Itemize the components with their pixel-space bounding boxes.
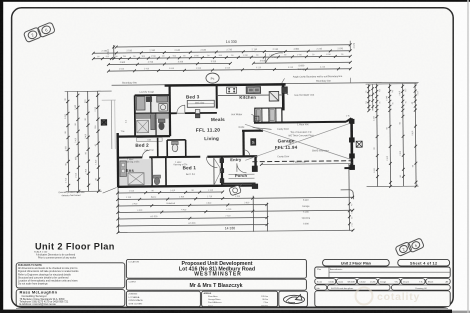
sliding door tag S <box>251 139 256 146</box>
right column: scale/date/drawn row <box>315 279 336 285</box>
left exterior wall <box>116 133 119 187</box>
garage top wall <box>254 121 346 124</box>
hot water unit <box>282 87 288 94</box>
bed2 robe strip <box>137 137 163 141</box>
tag 2 box <box>254 116 259 122</box>
verandah left <box>110 100 112 149</box>
amendment stamp pair near title block <box>395 242 412 257</box>
laundry block walls <box>134 95 136 135</box>
pantry block <box>255 108 282 123</box>
right column: sheet number pill <box>398 259 450 266</box>
entry tag diamond <box>239 184 244 188</box>
title block: logo box <box>279 291 308 306</box>
wall bed2 top <box>117 135 170 138</box>
title block: areas box <box>202 291 278 306</box>
sheet bottom shadow <box>16 308 448 310</box>
hood recess arc <box>265 53 283 63</box>
downpipe mark lower right <box>341 190 354 200</box>
garage right wall <box>350 118 353 168</box>
bed3 robe <box>187 100 214 107</box>
watermark <box>356 288 373 305</box>
right dimension lines <box>376 84 379 187</box>
right column: sheet name pill <box>323 259 390 266</box>
title block: location box <box>126 259 306 278</box>
bed3 / kitchen walls <box>216 85 218 108</box>
hall partitions <box>157 138 159 157</box>
house right wall (entry) <box>221 157 223 186</box>
north / datum oval <box>206 73 219 83</box>
wc fixtures <box>172 141 179 144</box>
bed1 robe strip <box>213 158 215 185</box>
title block: surveyor box <box>16 290 125 307</box>
ens partitions <box>151 158 153 185</box>
boundary line <box>112 82 419 85</box>
right column: empty box <box>315 291 450 307</box>
garage left wall L <box>242 130 263 132</box>
svg-text:cotality: cotality <box>377 291 420 303</box>
ens fixtures <box>119 159 151 185</box>
garage door dashed <box>252 160 351 163</box>
small vertical dim at left of top dims <box>113 45 115 59</box>
mid wall <box>117 156 142 158</box>
garage diagonals <box>245 123 350 160</box>
bottom wall <box>118 185 256 186</box>
entry right wall <box>254 156 257 170</box>
right column: amendments box <box>315 267 450 278</box>
left dimension lines <box>67 91 70 191</box>
kitchen <box>282 84 285 110</box>
title block: zoning box <box>126 291 200 306</box>
scan noise overlay <box>0 0 1 1</box>
door arcs <box>177 105 185 113</box>
porch <box>228 173 254 175</box>
title block: client box <box>126 279 306 290</box>
pier box right of garage <box>356 141 362 147</box>
right column: job number row <box>315 285 327 290</box>
laundry fixtures <box>136 97 145 111</box>
amendment stamp pair top-left <box>23 27 41 43</box>
bottom dimension lines <box>117 187 119 233</box>
scan edge bars <box>0 0 3 313</box>
exterior top wall <box>165 84 286 85</box>
title block: notes box <box>16 263 125 288</box>
